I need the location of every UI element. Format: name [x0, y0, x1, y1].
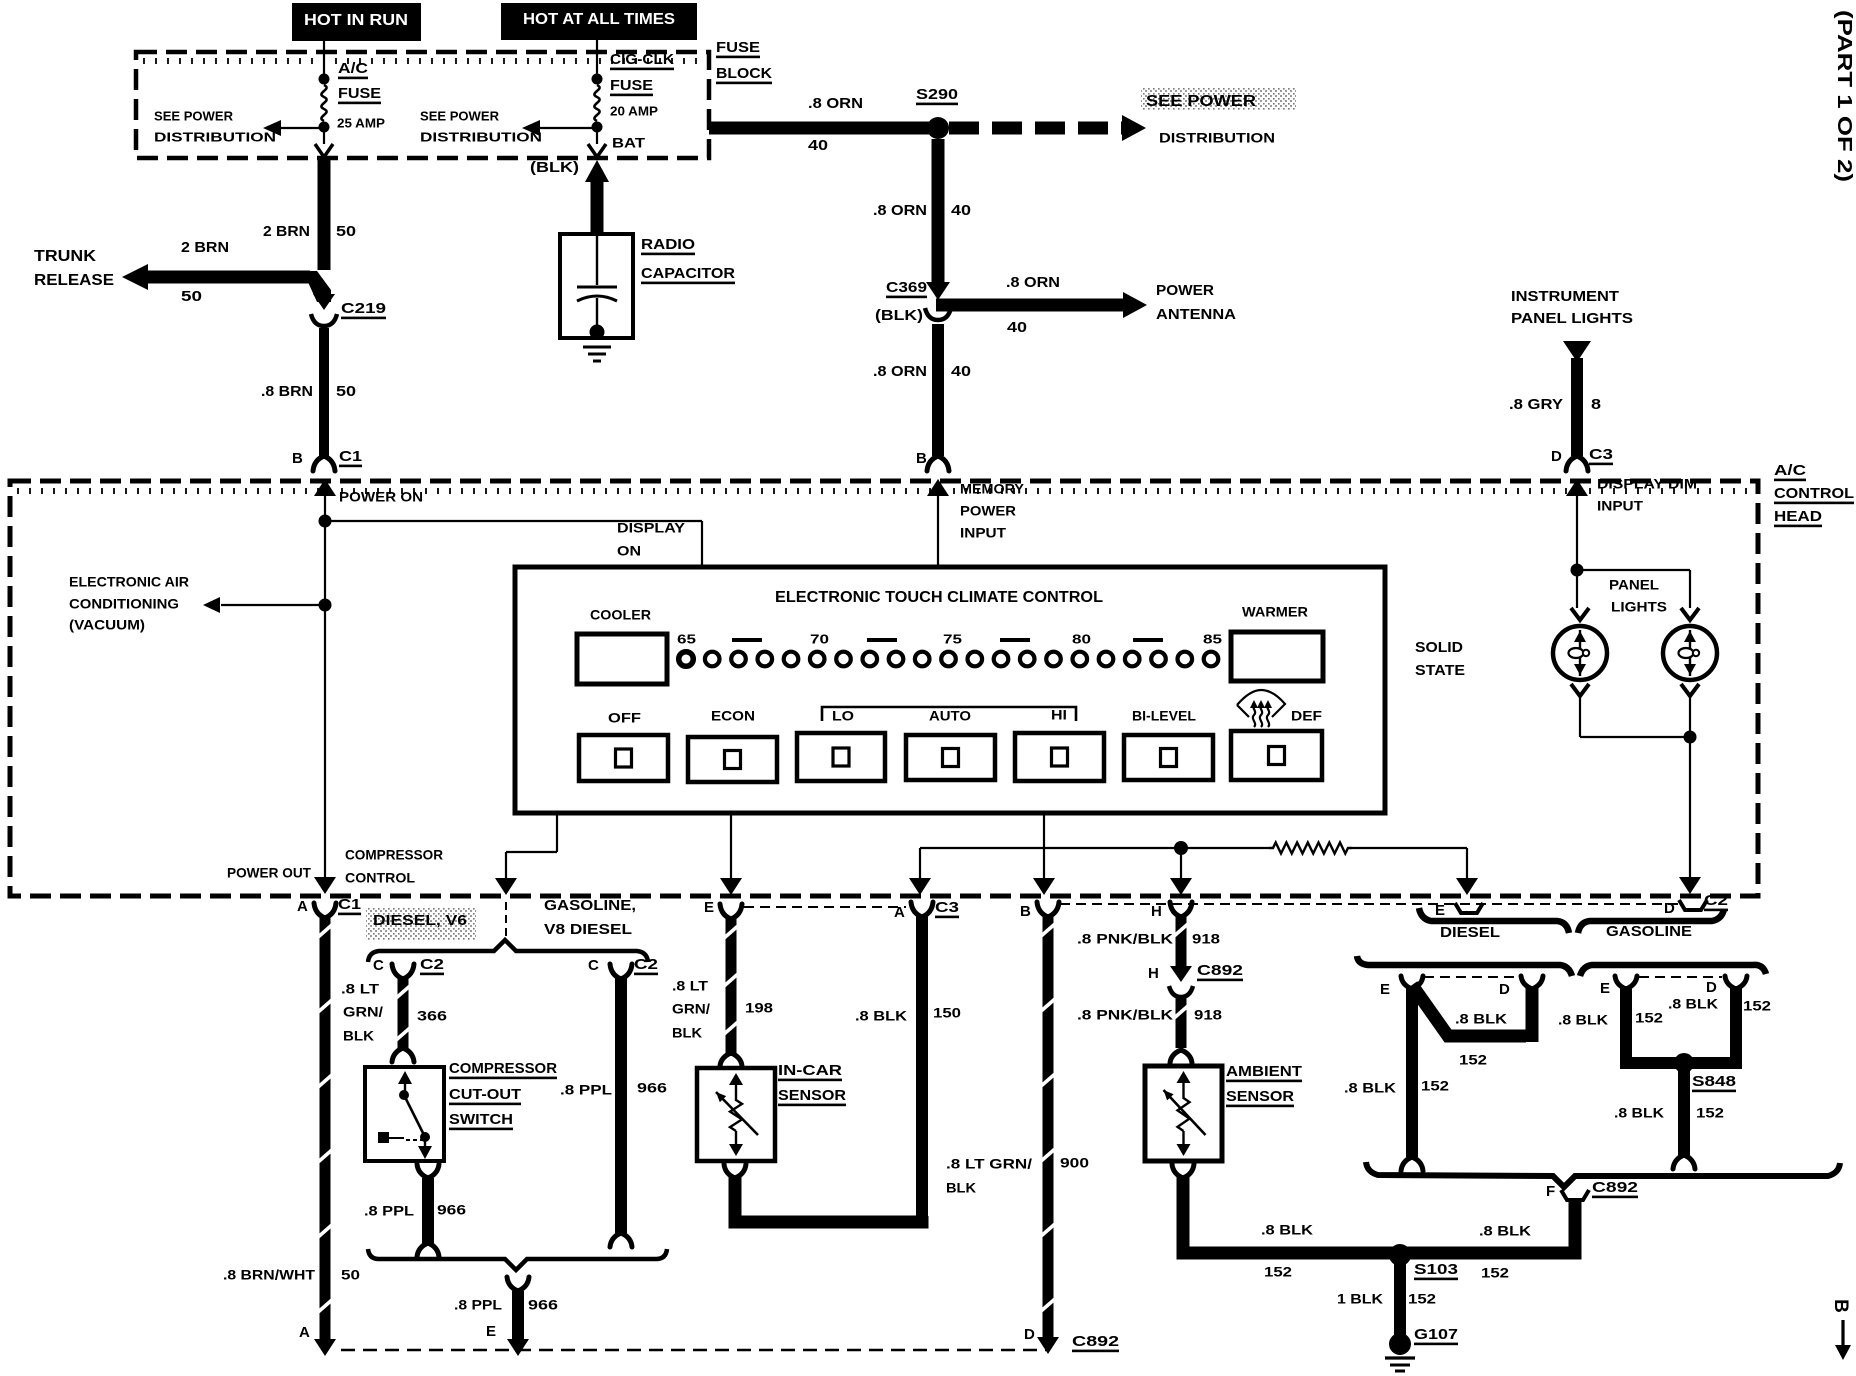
svg-text:S848: S848	[1692, 1073, 1736, 1090]
sensor RT1 in-car sensor	[697, 1068, 775, 1161]
label .8 BLK 152 (left of S103)	[1261, 1221, 1313, 1279]
lamp DS1 panel light left	[1553, 608, 1607, 696]
svg-text:CONTROL: CONTROL	[345, 869, 415, 885]
switch S1 compressor cut-out switch	[365, 1067, 444, 1161]
svg-text:INPUT: INPUT	[960, 524, 1006, 540]
svg-text:HEAD: HEAD	[1774, 508, 1822, 525]
svg-text:.8 PPL: .8 PPL	[560, 1081, 613, 1097]
label HOT AT ALL TIMES	[501, 3, 697, 40]
svg-text:E: E	[704, 899, 714, 916]
svg-text:A/C: A/C	[338, 60, 368, 77]
wire .8 PNK/BLK 918 (upper)	[1170, 916, 1192, 982]
label PANEL LIGHTS	[1609, 576, 1667, 614]
svg-text:H: H	[1148, 965, 1159, 982]
wire .8 BRN 50 from C219 to C1 pin B	[313, 328, 335, 471]
svg-text:DISPLAY: DISPLAY	[617, 519, 686, 535]
wire .8 PPL 966 pin E to C892	[507, 1277, 529, 1356]
svg-text:50: 50	[336, 383, 356, 400]
arrow memory power input	[927, 479, 949, 567]
svg-text:.8 LT: .8 LT	[341, 980, 380, 996]
label .8 BRN 50	[261, 383, 356, 400]
svg-text:40: 40	[808, 137, 828, 154]
svg-text:SENSOR: SENSOR	[1226, 1088, 1294, 1105]
svg-text:A: A	[299, 1324, 310, 1341]
wire .8 PPL 966 below switch	[417, 1164, 439, 1257]
label .8 ORN 40 (fuse block to S290)	[808, 95, 863, 154]
svg-text:198: 198	[745, 999, 773, 1015]
node S290	[916, 86, 958, 139]
gasoline connector pin D	[1706, 976, 1747, 996]
label .8 BLK 150	[855, 1004, 961, 1023]
svg-text:.8 ORN: .8 ORN	[808, 95, 863, 112]
wire in-car sensor to C3 pin A	[724, 1164, 922, 1222]
label .8 LT GRN/BLK 900	[946, 1154, 1089, 1195]
svg-text:C892: C892	[1072, 1333, 1119, 1350]
wire .8 BLK 152 (S848 down)	[1673, 1063, 1695, 1169]
svg-text:.8 BLK: .8 BLK	[1668, 995, 1718, 1011]
svg-text:70: 70	[810, 632, 829, 647]
label POWER ANTENNA	[1156, 282, 1236, 323]
svg-text:40: 40	[951, 202, 971, 219]
svg-text:COMPRESSOR: COMPRESSOR	[345, 846, 443, 862]
svg-text:152: 152	[1264, 1263, 1292, 1279]
svg-text:F: F	[1546, 1183, 1555, 1200]
svg-text:DIESEL: DIESEL	[1440, 924, 1500, 941]
wire below panel lamps	[1580, 696, 1690, 737]
svg-text:C2: C2	[420, 956, 444, 973]
label AMBIENT SENSOR	[1226, 1063, 1302, 1107]
svg-text:D: D	[1664, 900, 1675, 917]
label FUSE BLOCK	[716, 39, 772, 84]
node panel lights junction	[1571, 564, 1584, 577]
svg-text:(BLK): (BLK)	[530, 159, 579, 176]
wire from HOT AT ALL TIMES to CIG-CLK fuse	[596, 40, 598, 75]
labels .8 BLK 152 (gasoline)	[1558, 995, 1771, 1027]
connector C369 (BLK)	[875, 279, 951, 324]
label .8 GRY 8	[1509, 396, 1601, 413]
svg-text:SEE POWER: SEE POWER	[1146, 93, 1257, 110]
label .8 PPL 966 (below switch)	[364, 1201, 466, 1218]
lamp DS2 panel light right	[1663, 608, 1717, 696]
label .8 PNK/BLK 918 (upper)	[1077, 930, 1220, 946]
sensor RT2 ambient sensor	[1145, 1066, 1222, 1161]
branch bracket upper left (diesel)	[1419, 908, 1569, 933]
svg-text:C: C	[588, 957, 599, 974]
svg-text:DISPLAY DIM: DISPLAY DIM	[1597, 475, 1697, 491]
svg-text:(VACUUM): (VACUUM)	[69, 616, 145, 632]
connector fork above in-car sensor	[720, 1053, 742, 1066]
svg-text:.8 LT GRN/: .8 LT GRN/	[946, 1155, 1032, 1171]
svg-text:G107: G107	[1414, 1326, 1458, 1343]
label .8 LT GRN/BLK 366	[341, 980, 447, 1043]
ground G107	[1385, 1326, 1458, 1371]
svg-text:65: 65	[677, 632, 696, 647]
svg-text:C2: C2	[634, 956, 658, 973]
temperature LED circles	[679, 652, 1219, 667]
temperature scale dashes	[732, 638, 1163, 642]
svg-text:966: 966	[637, 1079, 667, 1095]
svg-text:.8 BRN: .8 BRN	[261, 383, 313, 400]
bracket over LO AUTO HI	[822, 707, 1076, 721]
svg-text:POWER ON: POWER ON	[339, 488, 423, 504]
svg-text:DIESEL, V6: DIESEL, V6	[373, 912, 467, 929]
svg-text:CONDITIONING: CONDITIONING	[69, 595, 179, 611]
svg-text:.8 ORN: .8 ORN	[873, 363, 927, 380]
node junction H on sensor net	[1170, 841, 1192, 895]
wire electronic air conditioning (vacuum)	[203, 597, 332, 613]
svg-text:COOLER: COOLER	[590, 606, 651, 622]
svg-text:(BLK): (BLK)	[875, 307, 923, 324]
option brace lower (joins C2 branches)	[368, 1249, 667, 1270]
label DIESEL, V6 (speckled)	[366, 908, 476, 940]
svg-text:IN-CAR: IN-CAR	[778, 1062, 842, 1079]
svg-text:E: E	[1380, 981, 1390, 998]
svg-text:.8 BLK: .8 BLK	[1479, 1222, 1531, 1238]
display COOLER button	[577, 606, 667, 684]
connector C892 pin H	[1148, 962, 1243, 997]
svg-text:PANEL: PANEL	[1609, 576, 1659, 592]
wire 1 BLK 152 (S103 to G107)	[1394, 1264, 1406, 1336]
arrow SEE POWER DISTRIBUTION left (A/C fuse)	[263, 120, 322, 136]
svg-text:.8 PNK/BLK: .8 PNK/BLK	[1077, 1006, 1173, 1022]
svg-text:.8 BLK: .8 BLK	[1614, 1104, 1664, 1120]
label 1 BLK 152	[1337, 1290, 1436, 1306]
label 2 BRN 50 (trunk release)	[181, 239, 229, 305]
svg-text:A: A	[894, 904, 905, 921]
wire ETCC to pin B	[1033, 813, 1055, 895]
svg-text:BLK: BLK	[946, 1179, 976, 1195]
svg-text:D: D	[1551, 448, 1562, 465]
connector C2 pin D (control head bottom)	[1664, 892, 1728, 917]
capacitor C-radio RADIO CAPACITOR	[560, 234, 633, 361]
label .8 BRN/WHT 50	[223, 1266, 360, 1341]
label .8 BLK 152 (S848 down)	[1614, 1104, 1724, 1120]
wire power out	[314, 605, 336, 894]
option brace upper (diesel v6 / gasoline v8)	[368, 940, 648, 962]
svg-text:ELECTRONIC TOUCH CLIMATE CONTR: ELECTRONIC TOUCH CLIMATE CONTROL	[775, 589, 1103, 606]
connector C2 pin C (gasoline v8 diesel)	[588, 956, 658, 979]
bottom dashed line to C892	[341, 1349, 1046, 1352]
svg-text:H: H	[1151, 903, 1162, 920]
svg-text:C219: C219	[341, 300, 386, 317]
connector C219	[311, 300, 386, 326]
svg-text:COMPRESSOR: COMPRESSOR	[449, 1060, 557, 1077]
svg-text:POWER: POWER	[1156, 282, 1214, 299]
fuse block dashed box	[136, 52, 709, 158]
arrow display dim input	[1566, 479, 1588, 570]
wire .8 ORN 40 C369 down to C1 pin B	[932, 324, 944, 456]
svg-text:20 AMP: 20 AMP	[610, 104, 658, 119]
svg-text:LO: LO	[832, 707, 854, 723]
node S103	[1389, 1244, 1458, 1280]
label .8 ORN 40 (power antenna)	[1006, 274, 1060, 336]
svg-text:50: 50	[336, 223, 356, 240]
svg-text:GASOLINE: GASOLINE	[1606, 923, 1692, 940]
svg-text:RADIO: RADIO	[641, 236, 695, 253]
svg-text:2 BRN: 2 BRN	[263, 223, 310, 240]
label .8 PNK/BLK 918 (lower)	[1077, 1006, 1222, 1022]
label GASOLINE, V8 DIESEL	[544, 897, 636, 938]
svg-text:SOLID: SOLID	[1415, 639, 1463, 656]
wire (BLK) to radio capacitor	[530, 159, 609, 236]
label .8 PPL 966 E	[454, 1296, 558, 1340]
svg-text:C3: C3	[935, 899, 959, 916]
svg-text:CIG-CLK: CIG-CLK	[610, 51, 674, 68]
label COMPRESSOR CUT-OUT SWITCH	[449, 1060, 557, 1130]
wire .8 ORN 40 S290 down to C369	[926, 139, 950, 300]
svg-text:STATE: STATE	[1415, 662, 1465, 679]
label SEE POWER DISTRIBUTION (left)	[154, 109, 276, 145]
temperature scale labels 65 70 75 80 85	[677, 632, 1222, 647]
svg-text:ON: ON	[617, 542, 641, 558]
svg-text:966: 966	[528, 1296, 558, 1312]
wire .8 PNK/BLK 918 (lower)	[1170, 998, 1192, 1063]
wire compressor control (ETCC to edge)	[495, 813, 557, 895]
svg-text:B: B	[916, 450, 927, 467]
diesel connector pin E	[1380, 976, 1423, 998]
svg-text:SENSOR: SENSOR	[778, 1087, 846, 1104]
svg-text:C892: C892	[1197, 962, 1243, 979]
svg-text:.8 BLK: .8 BLK	[1344, 1079, 1396, 1095]
wire .8 ORN 40 to POWER ANTENNA	[936, 292, 1147, 318]
label .8 ORN 40 (to memory power input)	[873, 363, 971, 380]
dashed wire compressor control to option brace	[505, 902, 507, 936]
svg-text:75: 75	[943, 632, 962, 647]
connector pin H (.8 pnk/blk)	[1151, 902, 1192, 920]
label connector C3 pin D	[1551, 446, 1613, 465]
wire .8 LT GRN/BLK 198	[726, 918, 737, 1056]
svg-text:C: C	[373, 957, 384, 974]
gasoline connector pin E	[1600, 976, 1637, 997]
svg-text:918: 918	[1194, 1006, 1222, 1022]
svg-text:152: 152	[1459, 1051, 1487, 1067]
display WARMER button	[1231, 603, 1323, 681]
svg-text:E: E	[1435, 902, 1445, 919]
connector C2 pin E (control head bottom)	[1435, 902, 1483, 919]
label .8 ORN 40 (S290 to C369)	[873, 202, 971, 219]
svg-text:(PART 1 OF 2): (PART 1 OF 2)	[1833, 10, 1855, 182]
label ELECTRONIC AIR CONDITIONING (VACUUM)	[69, 573, 189, 632]
svg-text:.8 PPL: .8 PPL	[364, 1202, 415, 1218]
gasoline wire .8 BLK 152 (E and D join)	[1626, 986, 1736, 1063]
svg-text:ECON: ECON	[711, 707, 755, 723]
label IN-CAR SENSOR	[778, 1062, 846, 1106]
diesel wire .8 BLK 152 (E down)	[1401, 988, 1423, 1171]
wire .8 ORN 40 from fuse block to S290	[709, 122, 934, 135]
svg-text:ELECTRONIC AIR: ELECTRONIC AIR	[69, 573, 189, 589]
label A/C CONTROL HEAD	[1774, 462, 1854, 527]
svg-text:SEE POWER: SEE POWER	[420, 109, 500, 124]
wire from HOT IN RUN to A/C fuse	[323, 41, 325, 75]
svg-text:S103: S103	[1414, 1261, 1458, 1278]
svg-text:POWER: POWER	[960, 502, 1016, 518]
connector C3 pin A	[894, 899, 959, 921]
branch bracket upper right (gasoline)	[1578, 909, 1724, 933]
label .8 BLK 152 (right of S103)	[1479, 1222, 1531, 1280]
resistor R1 (ambient sensor net)	[1269, 843, 1352, 854]
wire .8 PPL 966 (gasoline branch)	[610, 978, 632, 1247]
buttons row OFF..DEF	[579, 731, 1322, 782]
node junction power on / display on	[319, 515, 332, 528]
svg-text:C1: C1	[338, 896, 361, 913]
svg-text:152: 152	[1635, 1009, 1663, 1025]
svg-text:GASOLINE,: GASOLINE,	[544, 897, 636, 914]
wire .8 GRY 8 from instrument panel lights	[1563, 341, 1591, 471]
svg-text:152: 152	[1421, 1077, 1449, 1093]
label connector C892 pin D	[1024, 1326, 1119, 1352]
label INSTRUMENT PANEL LIGHTS	[1511, 288, 1633, 327]
label MEMORY POWER INPUT	[960, 480, 1025, 540]
wire .8 LT GRN/BLK 900	[1037, 916, 1059, 1354]
svg-text:D: D	[1024, 1326, 1035, 1343]
svg-text:.8 GRY: .8 GRY	[1509, 396, 1563, 413]
label COMPRESSOR CONTROL	[345, 846, 443, 885]
svg-text:POWER OUT: POWER OUT	[227, 864, 311, 880]
svg-text:.8 BLK: .8 BLK	[1455, 1010, 1507, 1026]
svg-text:40: 40	[1007, 319, 1027, 336]
A/C control head dashed box	[10, 481, 1758, 896]
svg-text:V8 DIESEL: V8 DIESEL	[544, 921, 632, 938]
label SEE POWER DISTRIBUTION (center)	[420, 109, 542, 145]
svg-text:C1: C1	[339, 448, 362, 465]
wire to panel lamps	[1577, 570, 1690, 608]
svg-text:DISTRIBUTION: DISTRIBUTION	[420, 130, 542, 145]
connector C1 pin E (in-car sensor)	[704, 899, 742, 919]
wire 2 BRN 50 to TRUNK RELEASE	[122, 264, 335, 310]
svg-text:B: B	[1020, 903, 1031, 920]
svg-text:WARMER: WARMER	[1242, 603, 1308, 619]
svg-text:A: A	[297, 898, 308, 915]
svg-text:TRUNK: TRUNK	[34, 248, 96, 265]
svg-text:152: 152	[1481, 1264, 1509, 1280]
wire .8 BLK 150	[916, 916, 928, 1222]
svg-text:DISTRIBUTION: DISTRIBUTION	[1159, 129, 1275, 145]
svg-text:50: 50	[181, 288, 202, 305]
label B (page link) with arrow	[1830, 1299, 1851, 1360]
dashed wire S290 to SEE POWER DISTRIBUTION (right)	[949, 115, 1146, 141]
svg-text:B: B	[292, 450, 303, 467]
svg-text:BLK: BLK	[672, 1024, 702, 1040]
wire 2 BRN 50 from A/C fuse down	[318, 158, 331, 270]
branch bracket row2 left (diesel)	[1357, 956, 1572, 976]
svg-text:8: 8	[1591, 396, 1601, 413]
svg-text:918: 918	[1192, 930, 1220, 946]
label DISPLAY ON	[617, 519, 686, 558]
label RADIO CAPACITOR	[641, 236, 735, 284]
connector pin B (lt grn/blk 900)	[1020, 902, 1059, 920]
wire .8 BRN/WHT 50 (C1-A down)	[314, 917, 336, 1356]
svg-text:RELEASE: RELEASE	[34, 272, 114, 289]
svg-text:SWITCH: SWITCH	[449, 1111, 513, 1128]
node S848	[1674, 1053, 1736, 1092]
branch bracket row2 right (gasoline)	[1580, 965, 1766, 976]
svg-text:.8 LT: .8 LT	[672, 977, 708, 993]
defrost icon	[1237, 690, 1285, 727]
label DISPLAY DIM INPUT	[1597, 475, 1697, 513]
wire ETCC to in-car sensor pin E	[720, 813, 742, 895]
svg-text:900: 900	[1060, 1154, 1089, 1170]
svg-text:C3: C3	[1589, 446, 1613, 463]
net wire sensors common (C3-A to H to E)	[909, 848, 1478, 895]
svg-text:366: 366	[417, 1007, 447, 1023]
svg-text:GRN/: GRN/	[672, 1000, 710, 1016]
svg-text:C2: C2	[1704, 892, 1728, 909]
svg-text:.8 ORN: .8 ORN	[1006, 274, 1060, 291]
svg-text:.8 BLK: .8 BLK	[1558, 1011, 1608, 1027]
svg-text:D: D	[1706, 979, 1717, 996]
svg-text:SEE POWER: SEE POWER	[154, 109, 234, 124]
svg-text:DISTRIBUTION: DISTRIBUTION	[154, 130, 276, 145]
wire .8 LT GRN/BLK 366	[398, 978, 409, 1048]
svg-text:85: 85	[1203, 632, 1222, 647]
dashed line pin E to pin A	[744, 906, 906, 908]
diesel jumper wire .8 BLK 152 (E to D)	[1412, 985, 1532, 1042]
label A/C FUSE 25 AMP	[337, 60, 385, 131]
svg-text:.8 BRN/WHT: .8 BRN/WHT	[223, 1266, 315, 1282]
svg-text:.8 BLK: .8 BLK	[1261, 1221, 1313, 1237]
button labels OFF ECON LO AUTO HI BI-LEVEL DEF	[608, 706, 1322, 725]
svg-text:1 BLK: 1 BLK	[1337, 1290, 1383, 1306]
svg-text:152: 152	[1408, 1290, 1436, 1306]
connector C892 pin F	[1546, 1179, 1638, 1200]
node below panel lamps	[1684, 731, 1697, 744]
svg-text:80: 80	[1072, 632, 1091, 647]
svg-text:MEMORY: MEMORY	[960, 480, 1025, 496]
svg-text:PANEL LIGHTS: PANEL LIGHTS	[1511, 310, 1633, 327]
svg-text:50: 50	[341, 1266, 360, 1282]
svg-text:DEF: DEF	[1291, 707, 1322, 723]
svg-text:25 AMP: 25 AMP	[337, 116, 385, 131]
connector C2 pin C (diesel v6)	[373, 956, 444, 979]
svg-text:FUSE: FUSE	[716, 39, 760, 56]
fuse F2 CIG-CLK FUSE 20 AMP	[588, 74, 606, 158]
svg-text:966: 966	[437, 1201, 466, 1217]
svg-text:E: E	[486, 1323, 496, 1340]
label HOT IN RUN	[292, 3, 421, 41]
label .8 PPL 966 (gasoline branch)	[560, 1079, 667, 1097]
svg-text:FUSE: FUSE	[338, 85, 381, 102]
svg-text:AUTO: AUTO	[929, 707, 971, 723]
svg-text:GRN/: GRN/	[343, 1003, 383, 1019]
svg-text:HI: HI	[1051, 706, 1067, 722]
svg-text:E: E	[1600, 980, 1610, 997]
wire ambient sensor to S103	[1172, 1164, 1394, 1253]
label SEE POWER DISTRIBUTION (right, speckled)	[1141, 87, 1296, 145]
svg-text:.8 PNK/BLK: .8 PNK/BLK	[1077, 930, 1173, 946]
label .8 BLK 152 (diesel down)	[1344, 1077, 1449, 1095]
diesel subcircuit dashed line	[1424, 976, 1520, 978]
wire .8 BLK 152 (F down to S103)	[1406, 1200, 1575, 1253]
svg-text:BAT: BAT	[612, 134, 646, 150]
dashed line pin B to D/C2	[1060, 903, 1680, 905]
svg-text:.8 PPL: .8 PPL	[454, 1296, 502, 1312]
svg-text:.8 BLK: .8 BLK	[855, 1007, 907, 1023]
svg-text:HOT IN RUN: HOT IN RUN	[304, 12, 408, 29]
svg-text:CAPACITOR: CAPACITOR	[641, 265, 735, 282]
svg-text:INPUT: INPUT	[1597, 497, 1643, 513]
svg-text:ANTENNA: ANTENNA	[1156, 306, 1236, 323]
svg-text:40: 40	[951, 363, 971, 380]
label connector C1 pin B (power on)	[292, 448, 362, 467]
svg-text:A/C: A/C	[1774, 462, 1806, 479]
arrow SEE POWER DISTRIBUTION left (CIG-CLK fuse)	[522, 120, 594, 136]
svg-text:C369: C369	[886, 279, 927, 296]
svg-text:D: D	[1499, 981, 1510, 998]
arrow power on into control head	[314, 479, 336, 606]
connector C1 pin A (power out)	[297, 896, 361, 918]
ETCC U1 ELECTRONIC TOUCH CLIMATE CONTROL box	[515, 567, 1385, 813]
svg-text:CONTROL: CONTROL	[1774, 485, 1854, 502]
